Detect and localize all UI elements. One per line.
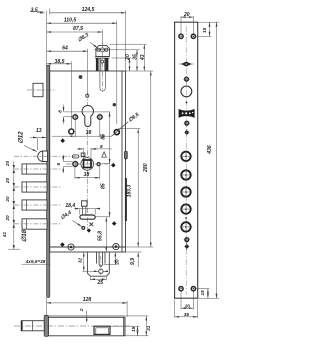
svg-text:8: 8 <box>100 144 103 149</box>
svg-text:2: 2 <box>79 308 84 312</box>
fp ring hole below keyway <box>184 120 190 126</box>
svg-text:15: 15 <box>200 290 205 296</box>
deadbolt 3 <box>22 200 47 210</box>
diamond marker bottom-left <box>60 242 65 247</box>
fp top dim 20 <box>181 16 193 33</box>
housing centerline <box>102 43 104 92</box>
bottom housing below case <box>87 252 109 276</box>
dim 124,5 <box>50 12 126 14</box>
diamond marker upper-left <box>60 138 65 143</box>
svg-text:∅12: ∅12 <box>18 131 25 144</box>
screw post bottom-right <box>113 244 119 250</box>
fp bolt hole 5 <box>180 221 193 234</box>
faceplate centerline <box>185 26 187 295</box>
dim 2 <box>86 311 88 323</box>
svg-text:55,8: 55,8 <box>98 231 104 241</box>
fp bolt hole 4 <box>180 203 193 216</box>
svg-text:18,4: 18,4 <box>65 203 75 209</box>
svg-text:4x9,5=38: 4x9,5=38 <box>25 259 46 264</box>
fp keyway cut (dark reel shape) <box>179 109 195 118</box>
fp tiny dot <box>186 102 188 104</box>
bottom view: latch bolt <box>21 321 44 331</box>
rivet dot B <box>113 103 116 106</box>
svg-text:15: 15 <box>131 326 136 332</box>
hole left lower ∅ <box>69 129 74 134</box>
fp cylinder circle <box>181 86 192 97</box>
dim 3,5 <box>30 9 50 15</box>
follower row right hole <box>97 163 100 166</box>
svg-text:128: 128 <box>83 297 92 303</box>
svg-text:6: 6 <box>56 163 61 166</box>
follower disc <box>81 158 94 171</box>
dim 85 + 85 chain <box>88 112 110 217</box>
faceplate front view outline <box>175 22 198 298</box>
svg-text:124,5: 124,5 <box>82 7 95 13</box>
svg-text:13: 13 <box>36 128 42 134</box>
bottom view centerline <box>14 325 131 327</box>
bottom view: case section <box>48 316 125 336</box>
dim 8 follower square <box>77 148 112 159</box>
spring slot pill <box>72 155 78 158</box>
aux bolt slot below housing <box>100 59 105 92</box>
fp bolt hole 1 <box>180 150 193 163</box>
dim 8 cylinder offset <box>64 105 89 125</box>
svg-text:8: 8 <box>58 110 63 113</box>
top housing box <box>95 46 109 59</box>
svg-text:85: 85 <box>100 134 106 140</box>
deadbolt 4 <box>22 219 47 229</box>
bottom view: faceplate bar <box>44 315 48 336</box>
cam square lower <box>82 201 87 206</box>
svg-text:183,3: 183,3 <box>127 184 133 197</box>
dim 20 bottom housing slot <box>104 252 117 265</box>
dim 31 bottom view <box>125 316 148 336</box>
diamond marker right-mid <box>111 163 116 168</box>
svg-text:9,9: 9,9 <box>130 258 136 265</box>
dim 18,4 <box>74 209 99 215</box>
svg-text:∅18: ∅18 <box>21 229 28 242</box>
screw post bottom-left <box>68 244 74 250</box>
dim 25 <box>90 277 106 281</box>
dim 32 bottom housing <box>83 252 90 271</box>
diamond small near slot <box>87 228 91 232</box>
fp bolt hole 3 <box>180 186 193 199</box>
dimension extension lines top <box>47 11 126 129</box>
bottom view: housing box <box>94 326 110 334</box>
dim 64 <box>47 50 88 52</box>
triangle symbol <box>102 152 107 157</box>
svg-text:38: 38 <box>86 130 92 136</box>
fp dark ring lower <box>184 237 190 243</box>
left 20/41 dim chain <box>8 161 20 249</box>
svg-text:35: 35 <box>184 312 190 317</box>
euro cylinder profile <box>82 106 93 127</box>
svg-text:38: 38 <box>84 172 90 178</box>
aux top bolt (upper left) <box>33 83 43 96</box>
X mark near slot <box>89 222 93 226</box>
svg-text:31: 31 <box>146 325 151 331</box>
svg-text:20: 20 <box>125 54 131 61</box>
fp bottom dim 35 <box>175 300 198 319</box>
fp bottom dim 15 <box>196 289 210 299</box>
svg-text:3,5: 3,5 <box>31 7 38 13</box>
svg-text:∅8,3: ∅8,3 <box>77 32 90 43</box>
diamond marker right-lower <box>112 221 117 226</box>
small circle above cylinder <box>86 94 89 97</box>
latch bolt (round, outside) <box>38 151 48 162</box>
fp tiny dot between <box>185 217 187 219</box>
svg-text:15: 15 <box>202 27 207 33</box>
housing dims 20/35/43 <box>109 44 153 71</box>
fp top screw holes <box>179 34 196 38</box>
small square latch row <box>81 153 85 157</box>
top housing post walls (solid dark) <box>96 58 109 71</box>
faceplate strip (main view, edge-on) <box>47 65 50 297</box>
fp diamond top <box>181 62 192 67</box>
fp small hole w/ cross <box>183 76 190 83</box>
fp small diamond lower <box>184 243 189 250</box>
dim 13 latch <box>30 138 46 151</box>
svg-text:20: 20 <box>5 215 10 222</box>
dim 38 cylinder holes <box>52 120 112 137</box>
svg-text:∅4,4: ∅4,4 <box>60 210 73 222</box>
rivet dot A <box>79 75 83 79</box>
side bolt boss on right edge <box>125 151 128 221</box>
svg-text:20: 20 <box>5 178 10 185</box>
arrows at bottom housing circle <box>89 270 108 272</box>
svg-text:35: 35 <box>132 54 138 60</box>
lock case outline <box>50 71 126 252</box>
dim 38,5 <box>47 63 72 65</box>
svg-text:20: 20 <box>183 12 190 18</box>
dim 6 spring slot <box>63 155 72 174</box>
fp dim 436 <box>198 22 219 298</box>
hole ∅6.5 right <box>114 130 119 135</box>
dim 183,3 <box>118 129 141 247</box>
bolt chamfer lines <box>26 164 28 229</box>
fp bolt hole 2 <box>180 169 193 182</box>
svg-text:20: 20 <box>5 161 10 168</box>
cylinder fixing holes row <box>73 115 102 120</box>
svg-text:85: 85 <box>100 183 106 189</box>
svg-text:32: 32 <box>77 258 82 264</box>
dim 280 <box>126 71 154 247</box>
fp bottom dim 20 <box>181 292 193 310</box>
svg-text:20: 20 <box>184 303 191 308</box>
svg-text:64: 64 <box>62 45 68 51</box>
dim 9,9 <box>126 252 142 267</box>
svg-text:43: 43 <box>140 54 146 61</box>
follower row left hole <box>73 162 78 167</box>
fp top dim 15 <box>196 22 219 36</box>
deadbolt 1 <box>22 164 47 174</box>
housing ∅8.3 holes <box>94 48 111 63</box>
fp dark dot w/ cross <box>184 129 190 135</box>
fp bottom screw holes <box>179 287 196 291</box>
bolt centerlines <box>14 93 108 232</box>
svg-text:38,5: 38,5 <box>55 59 65 65</box>
dim 87,5 <box>47 31 103 33</box>
dim 38 follower holes <box>75 167 100 180</box>
deadbolt 2 <box>22 182 47 192</box>
svg-text:280: 280 <box>143 163 149 173</box>
svg-text:87,5: 87,5 <box>73 26 83 32</box>
dim 110,5 <box>47 22 117 24</box>
dim 128 <box>47 298 128 317</box>
svg-text:41: 41 <box>2 232 7 239</box>
svg-text:∅6,5: ∅6,5 <box>127 112 140 124</box>
svg-text:25: 25 <box>96 280 103 286</box>
svg-text:20: 20 <box>114 259 119 266</box>
svg-text:20: 20 <box>5 196 10 203</box>
follower square 8mm <box>84 160 92 168</box>
hole ∅4.4 <box>82 227 85 230</box>
lower slot pill <box>80 215 95 219</box>
svg-text:110,5: 110,5 <box>64 17 77 23</box>
dim 15 bottom view <box>110 326 140 336</box>
svg-text:436: 436 <box>207 145 213 155</box>
dim 55,8 <box>105 217 107 252</box>
